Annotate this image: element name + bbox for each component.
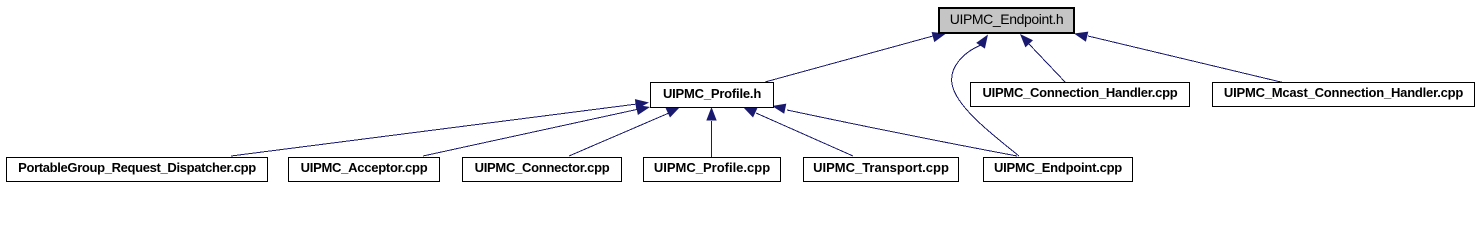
arrowhead into UIPMC_Endpoint.h from UIPMC_Mcast_Connection_Handler.cpp [1074,32,1088,42]
node UIPMC_Endpoint.cpp [983,157,1133,182]
arrowhead into UIPMC_Profile.h from UIPMC_Endpoint.cpp [772,104,786,114]
wire UIPMC_Profile.h -> UIPMC_Endpoint.h [765,36,933,82]
node UIPMC_Profile.h [650,82,774,108]
node UIPMC_Profile.cpp [643,157,781,182]
wire UIPMC_Endpoint.cpp -> UIPMC_Endpoint.h (curves around UIPMC_Connection_Handler.cpp) [952,45,1019,156]
arrowhead into UIPMC_Profile.h from UIPMC_Transport.cpp [743,107,757,118]
arrowhead into UIPMC_Endpoint.h from UIPMC_Connection_Handler.cpp [1020,34,1033,47]
wire UIPMC_Acceptor.cpp -> UIPMC_Profile.h [423,109,639,156]
arrowhead into UIPMC_Profile.h from UIPMC_Connector.cpp [666,107,680,118]
wire UIPMC_Endpoint.cpp -> UIPMC_Profile.h [787,110,1017,156]
arrowhead into UIPMC_Endpoint.h from UIPMC_Endpoint.cpp [976,35,988,49]
node UIPMC_Transport.cpp [803,157,959,182]
wire UIPMC_Profile.cpp -> UIPMC_Profile.h [711,121,713,157]
arrowhead into UIPMC_Profile.h from UIPMC_Profile.cpp [706,107,716,121]
wire UIPMC_Transport.cpp -> UIPMC_Profile.h [756,113,853,156]
wire UIPMC_Connector.cpp -> UIPMC_Profile.h [569,113,669,156]
arrowhead into UIPMC_Profile.h from UIPMC_Acceptor.cpp [636,105,650,115]
node UIPMC_Acceptor.cpp [288,157,440,182]
arrowhead into UIPMC_Endpoint.h from UIPMC_Profile.h [932,32,946,42]
wire UIPMC_Mcast_Connection_Handler.cpp -> UIPMC_Endpoint.h [1088,36,1285,83]
wire PortableGroup_Request_Dispatcher.cpp -> UIPMC_Profile.h [231,104,637,156]
node UIPMC_Endpoint.h (root, grey) [938,7,1075,34]
node UIPMC_Connection_Handler.cpp [970,82,1190,107]
node PortableGroup_Request_Dispatcher.cpp [6,157,268,182]
node UIPMC_Mcast_Connection_Handler.cpp [1212,82,1475,107]
wire UIPMC_Connection_Handler.cpp -> UIPMC_Endpoint.h [1029,44,1066,83]
arrowhead into UIPMC_Profile.h from PortableGroup_Request_Dispatcher.cpp [635,99,649,109]
edge layer [0,0,1479,187]
node UIPMC_Connector.cpp [462,157,622,182]
